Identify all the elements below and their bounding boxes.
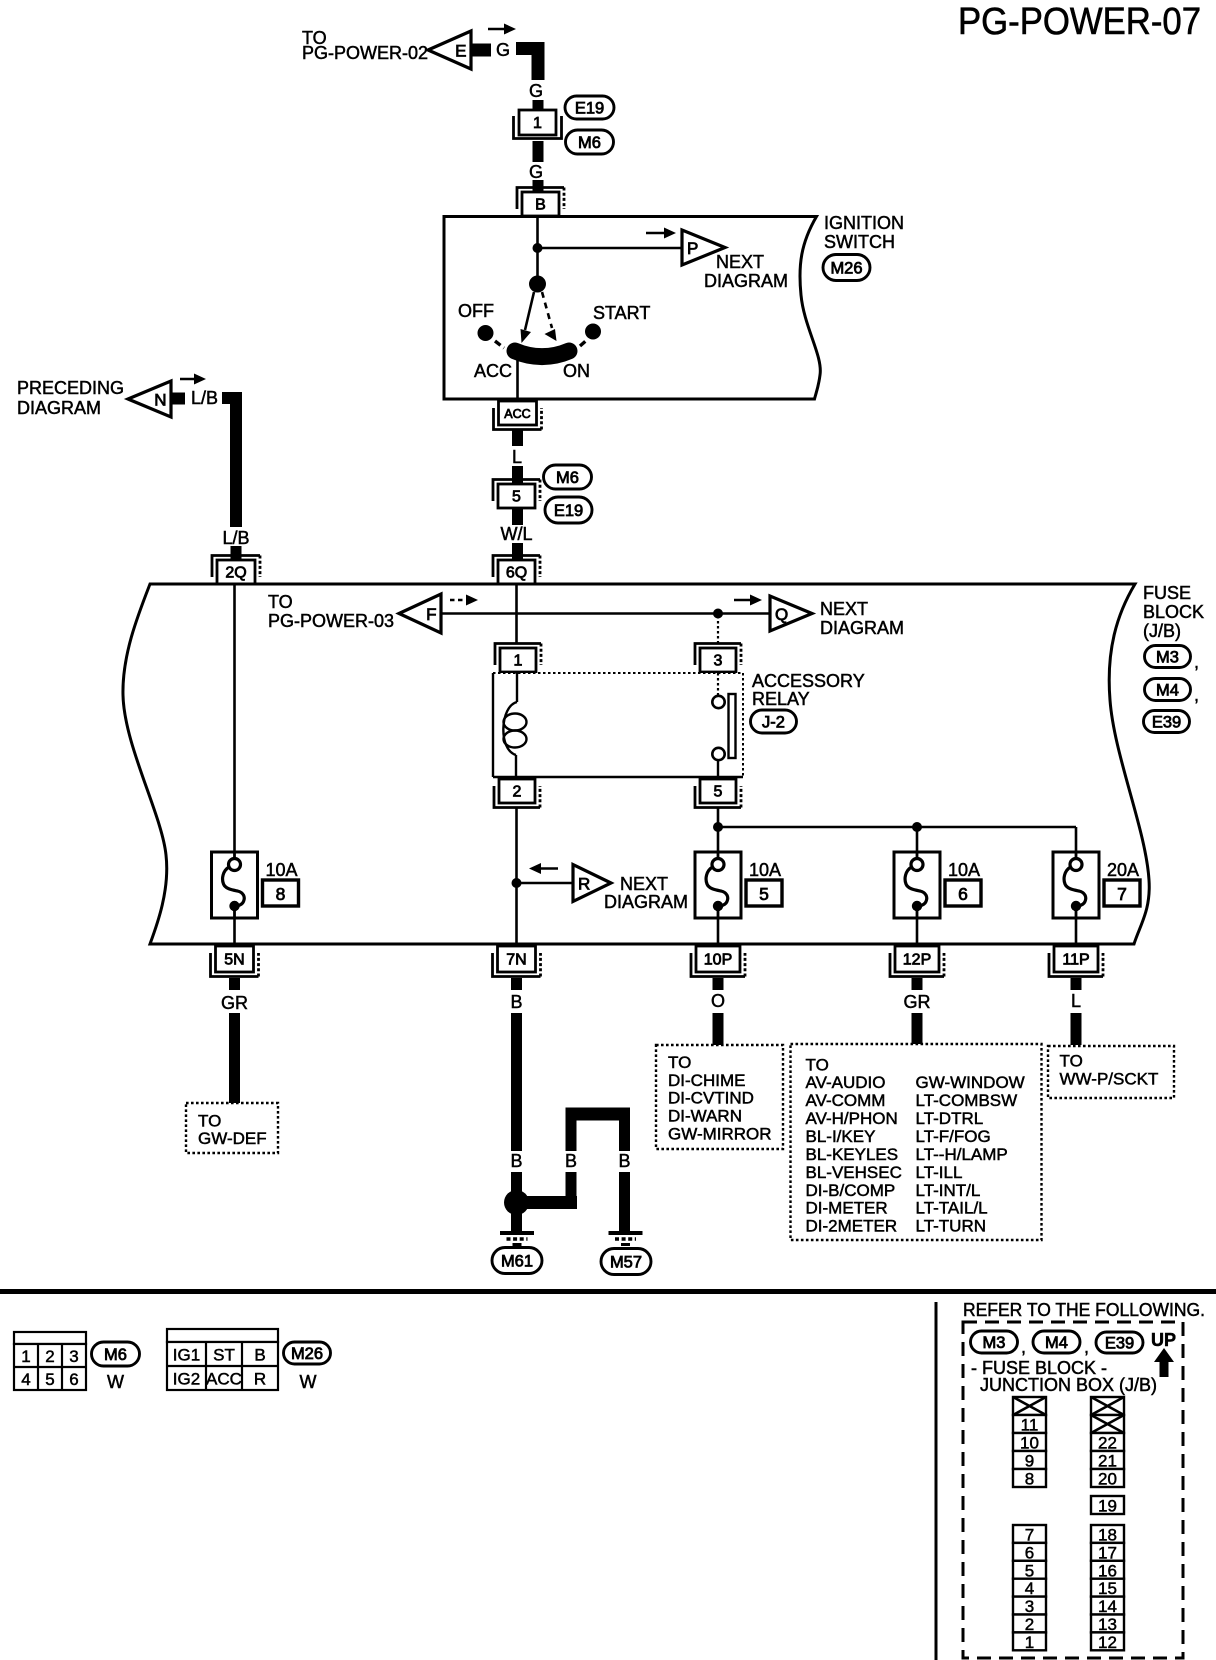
svg-text:E39: E39: [1105, 1335, 1134, 1353]
svg-text:M6: M6: [556, 469, 579, 487]
svg-text:2: 2: [513, 784, 522, 801]
svg-text:GR: GR: [221, 993, 248, 1013]
connector 11P (fuse block): [1049, 946, 1103, 977]
svg-text:PG-POWER-02: PG-POWER-02: [302, 43, 428, 63]
dash OFF to contact arc: [495, 341, 504, 348]
svg-text:W: W: [300, 1372, 317, 1392]
svg-text:(J/B): (J/B): [1143, 621, 1181, 641]
svg-text:GR: GR: [904, 992, 931, 1012]
svg-text:21: 21: [1098, 1452, 1117, 1471]
svg-text:BLOCK: BLOCK: [1143, 602, 1204, 622]
svg-text:JUNCTION BOX (J/B): JUNCTION BOX (J/B): [980, 1375, 1157, 1395]
off-page triangle Q next diagram: [770, 596, 812, 631]
off-page triangle N preceding diagram: [128, 381, 171, 417]
fuse layout right column lower: [1091, 1525, 1124, 1652]
wire stub below 11P: [1071, 978, 1082, 990]
svg-text:E: E: [455, 42, 466, 61]
svg-text:10A: 10A: [749, 860, 781, 880]
connector 1 bracket: [514, 116, 562, 139]
destination box TO WW-P/SCKT: [1048, 1046, 1174, 1098]
svg-text:REFER TO THE FOLLOWING.: REFER TO THE FOLLOWING.: [963, 1300, 1205, 1320]
label PRECEDING DIAGRAM: [17, 378, 124, 418]
svg-text:18: 18: [1098, 1525, 1117, 1544]
left leg lower segment: [566, 1172, 577, 1209]
arrow above triangle F: [450, 595, 478, 606]
horizontal wire F to Q: [441, 612, 770, 615]
horizontal wire to fuses 6 and 7: [718, 826, 1076, 829]
wire fuse 5 to 10P: [717, 918, 720, 946]
svg-text:L/B: L/B: [191, 388, 218, 408]
label IGNITION SWITCH: [824, 213, 904, 252]
wire stub below connector 5: [512, 508, 523, 525]
svg-text:17: 17: [1098, 1543, 1117, 1562]
svg-text:M6: M6: [104, 1346, 127, 1364]
connector label M26: [823, 255, 870, 281]
svg-text:1: 1: [21, 1347, 30, 1366]
wire 2Q to fuse 8: [233, 584, 236, 852]
svg-text:3: 3: [69, 1347, 78, 1366]
svg-text:B: B: [510, 992, 522, 1012]
svg-text:15: 15: [1098, 1579, 1117, 1598]
svg-text:13: 13: [1098, 1615, 1117, 1634]
relay coil: [503, 673, 526, 777]
svg-text:10A: 10A: [266, 860, 298, 880]
fuse layout left column upper: [1013, 1397, 1046, 1489]
wire down to fuse 6: [916, 827, 919, 852]
wire GR to AV/LT boxes: [912, 1013, 923, 1045]
svg-text:9: 9: [1025, 1452, 1034, 1471]
panel label M4: [1033, 1331, 1080, 1353]
wire stub triangle N: [171, 393, 185, 405]
svg-text:E19: E19: [575, 100, 604, 118]
svg-text:5N: 5N: [224, 952, 244, 969]
svg-text:NEXT: NEXT: [620, 874, 668, 894]
connector 12P (fuse block): [890, 946, 944, 977]
svg-text:BL-VEHSEC: BL-VEHSEC: [806, 1163, 902, 1182]
arrow above triangle R: [529, 863, 558, 874]
svg-text:UP: UP: [1151, 1330, 1176, 1350]
svg-text:8: 8: [276, 884, 286, 904]
wire ACC contact to connector ACC: [516, 360, 519, 399]
svg-text:DI-METER: DI-METER: [806, 1199, 888, 1218]
svg-text:7: 7: [1025, 1525, 1034, 1544]
svg-text:B: B: [510, 1151, 522, 1171]
connector label E19: [565, 96, 614, 119]
svg-text:GW-MIRROR: GW-MIRROR: [668, 1124, 772, 1143]
wire stub above connector 5: [512, 466, 523, 484]
wire down to fuse 7: [1075, 827, 1078, 852]
svg-text:22: 22: [1098, 1434, 1117, 1453]
svg-text:PG-POWER-07: PG-POWER-07: [958, 1, 1201, 43]
vertical separator line: [935, 1302, 938, 1660]
svg-text:10P: 10P: [704, 952, 732, 969]
svg-text:F: F: [426, 605, 436, 624]
svg-text:BL-I/KEY: BL-I/KEY: [806, 1127, 876, 1146]
svg-text:LT-TAIL/L: LT-TAIL/L: [916, 1199, 988, 1218]
svg-text:B: B: [618, 1151, 630, 1171]
svg-text:L/B: L/B: [222, 528, 249, 548]
OFF position node: [478, 325, 494, 341]
ignition switch contact arc ACC-ON: [515, 351, 569, 357]
svg-text:11: 11: [1021, 1416, 1039, 1435]
label TO PG-POWER-02: [302, 28, 428, 63]
svg-text:3: 3: [1025, 1597, 1034, 1616]
svg-text:DI-CHIME: DI-CHIME: [668, 1071, 745, 1090]
connector face view M6: [14, 1332, 86, 1390]
svg-text:,: ,: [1084, 1337, 1089, 1357]
junction node in ignition switch: [533, 243, 543, 253]
svg-text:DI-WARN: DI-WARN: [668, 1107, 742, 1126]
svg-text:DIAGRAM: DIAGRAM: [820, 618, 904, 638]
junction node to R: [512, 878, 522, 888]
svg-text:M6: M6: [578, 134, 601, 152]
wire O to DI boxes: [713, 1013, 724, 1047]
destination box TO DI-CHIME etc: [656, 1045, 783, 1149]
fuse 19 cell: [1091, 1496, 1124, 1516]
svg-text:LT-INT/L: LT-INT/L: [916, 1181, 981, 1200]
svg-text:WW-P/SCKT: WW-P/SCKT: [1060, 1070, 1159, 1089]
connector 5N (fuse block): [211, 946, 259, 977]
svg-text:12: 12: [1098, 1633, 1117, 1652]
svg-text:AV-COMM: AV-COMM: [806, 1091, 886, 1110]
M61 ground symbol: [500, 1233, 534, 1245]
svg-text:ACC: ACC: [474, 361, 512, 381]
svg-text:G: G: [529, 162, 543, 182]
dotted wire junction to relay pin 3: [717, 616, 719, 644]
label TO PG-POWER-03: [268, 592, 394, 631]
svg-text:2Q: 2Q: [225, 565, 246, 582]
label FUSE BLOCK (J/B): [1143, 583, 1204, 641]
wire stub into connector 1: [533, 100, 544, 111]
svg-text:6: 6: [69, 1370, 78, 1389]
arrow above triangle E: [488, 24, 516, 35]
svg-text:6: 6: [1025, 1543, 1034, 1562]
wire stub above connector 6Q: [512, 543, 523, 560]
svg-text:N: N: [154, 391, 166, 410]
svg-text:IG2: IG2: [173, 1370, 200, 1389]
fuse 5 10A: [695, 852, 741, 918]
svg-text:NEXT: NEXT: [716, 252, 764, 272]
wire fuse 6 to 12P: [916, 918, 919, 946]
horizontal separator line: [0, 1289, 1216, 1294]
svg-text:E39: E39: [1152, 714, 1181, 732]
svg-text:LT-DTRL: LT-DTRL: [916, 1109, 984, 1128]
svg-text:LT-F/FOG: LT-F/FOG: [916, 1127, 991, 1146]
svg-text:DIAGRAM: DIAGRAM: [604, 892, 688, 912]
svg-text:6Q: 6Q: [506, 565, 527, 582]
connector ACC (ignition switch): [494, 401, 542, 430]
svg-text:10: 10: [1020, 1434, 1039, 1453]
destination box TO AV/BL/DI/GW/LT systems: [791, 1044, 1042, 1240]
svg-text:6: 6: [958, 884, 968, 904]
destination box TO GW-DEF: [186, 1103, 278, 1153]
svg-text:7N: 7N: [506, 952, 526, 969]
accessory relay J-2 body: [493, 673, 743, 777]
svg-text:,: ,: [1021, 1337, 1026, 1357]
svg-text:DIAGRAM: DIAGRAM: [17, 398, 101, 418]
connector 10P (fuse block): [691, 946, 745, 977]
thick wire junction to right branch: [520, 1196, 577, 1209]
svg-text:LT-ILL: LT-ILL: [916, 1163, 963, 1182]
connector label M6 (2): [544, 465, 592, 489]
svg-text:G: G: [496, 40, 510, 60]
svg-text:ACC: ACC: [206, 1370, 242, 1389]
svg-text:AV-AUDIO: AV-AUDIO: [806, 1073, 886, 1092]
ground label M61: [492, 1248, 542, 1274]
arrow above triangle Q: [734, 595, 762, 606]
fuse number box 5: [746, 880, 782, 906]
off-page triangle F to PG-POWER-03: [399, 594, 441, 633]
wire junction to M61 ground: [511, 1212, 522, 1231]
solid arrow rotor to ACC: [521, 292, 535, 343]
wire from B to junction: [536, 216, 539, 248]
svg-text:DI-2METER: DI-2METER: [806, 1217, 898, 1236]
wire stub triangle E: [471, 44, 491, 57]
svg-text:2: 2: [1025, 1615, 1034, 1634]
dash contact arc to START: [580, 339, 588, 346]
svg-text:G: G: [529, 81, 543, 101]
relay pin 2: [494, 779, 540, 808]
wire stub below 5N: [229, 978, 240, 990]
svg-text:E19: E19: [554, 502, 583, 520]
svg-text:TO: TO: [1060, 1052, 1083, 1071]
junction node to Q: [713, 609, 723, 619]
off-page triangle P next diagram: [682, 230, 725, 265]
fuse number box 6: [945, 880, 981, 906]
svg-text:L: L: [1071, 991, 1081, 1011]
ground label M57: [601, 1249, 651, 1275]
svg-text:DI-CVTIND: DI-CVTIND: [668, 1089, 754, 1108]
svg-text:5: 5: [1025, 1561, 1034, 1580]
svg-text:M3: M3: [983, 1334, 1006, 1352]
svg-text:TO: TO: [198, 1112, 221, 1131]
wire relay pin 5 down: [717, 808, 720, 852]
relay pin 1: [495, 644, 541, 673]
svg-text:16: 16: [1098, 1561, 1117, 1580]
svg-text:DI-B/COMP: DI-B/COMP: [806, 1181, 896, 1200]
svg-text:START: START: [593, 303, 650, 323]
wire 6Q down to relay pin 1: [515, 584, 518, 644]
svg-text:1: 1: [1025, 1633, 1034, 1652]
wire fuse 8 to 5N: [233, 918, 236, 946]
svg-text:5: 5: [512, 489, 521, 506]
svg-text:7: 7: [1117, 884, 1127, 904]
svg-text:R: R: [578, 875, 590, 894]
svg-text:DIAGRAM: DIAGRAM: [704, 271, 788, 291]
connector B (ignition switch): [517, 188, 564, 217]
svg-text:P: P: [687, 239, 698, 258]
off-page triangle E to PG-POWER-02: [428, 31, 471, 69]
connector 2Q (fuse block): [212, 556, 260, 585]
label ACCESSORY RELAY: [752, 671, 865, 709]
panel label E39: [1096, 1332, 1143, 1353]
svg-text:B: B: [535, 197, 546, 214]
fuse number box 7: [1104, 880, 1140, 906]
relay pin 5: [695, 779, 741, 808]
connector 7N (fuse block): [493, 946, 541, 977]
svg-text:M3: M3: [1156, 649, 1179, 667]
label NEXT DIAGRAM (Q): [820, 599, 904, 638]
svg-text:M4: M4: [1045, 1334, 1068, 1352]
wire to triangle P: [538, 247, 684, 250]
svg-text:1: 1: [514, 653, 523, 670]
panel label M3: [971, 1331, 1018, 1353]
wire GR to GW-DEF: [229, 1013, 240, 1104]
svg-text:PRECEDING: PRECEDING: [17, 378, 124, 398]
M57 ground symbol: [609, 1233, 643, 1245]
svg-text:,: ,: [1194, 652, 1199, 672]
fuse number box 8: [263, 880, 299, 906]
svg-text:20: 20: [1098, 1470, 1117, 1489]
svg-text:W: W: [107, 1372, 124, 1392]
wire stub below connector 1: [533, 141, 544, 162]
left leg upper segment: [566, 1114, 577, 1151]
svg-text:FUSE: FUSE: [1143, 583, 1191, 603]
svg-text:LT-TURN: LT-TURN: [916, 1217, 987, 1236]
wire stub into connector B: [533, 180, 544, 192]
right leg upper segment: [619, 1114, 630, 1151]
svg-text:TO: TO: [668, 1053, 691, 1072]
fuse layout right column upper: [1091, 1397, 1124, 1489]
svg-text:OFF: OFF: [458, 301, 494, 321]
connector face view M26: [167, 1329, 278, 1390]
svg-text:Q: Q: [775, 605, 788, 624]
svg-text:LT--H/LAMP: LT--H/LAMP: [916, 1145, 1008, 1164]
dashed panel box: [963, 1322, 1183, 1658]
svg-text:L: L: [512, 447, 522, 467]
fuse 6 10A: [894, 852, 940, 918]
wire stub above connector 2Q: [231, 546, 242, 560]
wire L to WW-P/SCKT: [1071, 1013, 1082, 1045]
svg-text:M61: M61: [501, 1253, 533, 1271]
svg-text:PG-POWER-03: PG-POWER-03: [268, 611, 394, 631]
arrow above triangle N: [180, 374, 206, 385]
svg-text:J-2: J-2: [762, 714, 785, 732]
wire stub below 7N: [511, 978, 522, 990]
svg-text:TO: TO: [268, 592, 293, 612]
connector face label M6: [92, 1342, 140, 1366]
connector label M4: [1145, 679, 1191, 701]
connector 1 (E19/M6 inline): [519, 110, 556, 135]
connector label E19 (2): [545, 497, 592, 523]
thick wire L/B corner: [222, 398, 236, 527]
svg-text:ACC: ACC: [504, 407, 530, 421]
svg-text:12P: 12P: [903, 952, 931, 969]
connector 5 (M6/E19 inline): [493, 480, 540, 509]
svg-text:14: 14: [1098, 1597, 1117, 1616]
svg-text:GW-WINDOW: GW-WINDOW: [916, 1073, 1025, 1092]
svg-text:TO: TO: [806, 1055, 829, 1074]
wire relay pin 2 to 7N: [515, 808, 518, 946]
ignition rotor node: [529, 276, 546, 293]
svg-text:1: 1: [533, 115, 542, 132]
top bar of ground loop wire: [566, 1108, 631, 1121]
junction node fuse 6: [912, 822, 922, 832]
label NEXT DIAGRAM (P): [704, 252, 788, 291]
svg-text:B: B: [565, 1151, 577, 1171]
svg-text:SWITCH: SWITCH: [824, 232, 895, 252]
svg-text:M26: M26: [291, 1345, 323, 1363]
label NEXT DIAGRAM (R): [604, 874, 688, 912]
svg-text:4: 4: [1025, 1579, 1034, 1598]
off-page triangle R next diagram: [573, 865, 611, 902]
svg-text:W/L: W/L: [500, 524, 532, 544]
fuse block (J/B) component box: [123, 584, 1149, 944]
svg-text:M4: M4: [1156, 682, 1179, 700]
wire stub below 12P: [912, 978, 923, 990]
svg-text:5: 5: [714, 784, 723, 801]
svg-text:19: 19: [1098, 1497, 1117, 1516]
fuse 7 20A: [1053, 852, 1099, 918]
svg-text:O: O: [711, 991, 725, 1011]
arrow above triangle P: [646, 228, 676, 239]
svg-text:20A: 20A: [1107, 860, 1139, 880]
wire junction to triangle R: [517, 882, 575, 885]
connector label M6: [566, 130, 614, 154]
svg-text:IG1: IG1: [173, 1346, 200, 1365]
svg-text:ACCESSORY: ACCESSORY: [752, 671, 865, 691]
svg-text:R: R: [254, 1370, 266, 1389]
svg-text:NEXT: NEXT: [820, 599, 868, 619]
connector label J-2: [751, 710, 797, 733]
svg-text:LT-COMBSW: LT-COMBSW: [916, 1091, 1018, 1110]
junction node pin 5 branch: [713, 822, 723, 832]
fuse 8 10A: [212, 852, 258, 918]
svg-text:5: 5: [45, 1370, 54, 1389]
svg-text:BL-KEYLES: BL-KEYLES: [806, 1145, 899, 1164]
svg-text:M57: M57: [610, 1254, 642, 1272]
svg-text:8: 8: [1025, 1470, 1034, 1489]
svg-text:GW-DEF: GW-DEF: [198, 1129, 267, 1148]
svg-text:M26: M26: [830, 260, 862, 278]
relay switch contact: [712, 673, 735, 777]
thick wire G horizontal corner: [516, 49, 538, 81]
svg-text:RELAY: RELAY: [752, 689, 810, 709]
svg-text:11P: 11P: [1062, 952, 1089, 969]
START position node: [585, 324, 601, 340]
right leg lower segment: [619, 1172, 630, 1231]
connector label E39: [1144, 711, 1190, 733]
svg-text:ON: ON: [563, 361, 590, 381]
svg-text:,: ,: [1194, 685, 1199, 705]
fuse layout left column lower: [1013, 1525, 1046, 1652]
svg-text:B: B: [254, 1346, 265, 1365]
wire stub below 10P: [713, 978, 724, 990]
svg-text:3: 3: [714, 653, 723, 670]
connector face label M26: [284, 1342, 331, 1364]
svg-text:ST: ST: [213, 1346, 235, 1365]
connector label M3: [1145, 646, 1191, 668]
ground junction node: [504, 1190, 529, 1215]
connector 6Q (fuse block): [493, 556, 540, 585]
wire fuse 7 to 11P: [1075, 918, 1078, 946]
wire stub to ground junction: [511, 1172, 522, 1192]
dashed arrow rotor to ON: [542, 292, 557, 341]
svg-text:IGNITION: IGNITION: [824, 213, 904, 233]
ignition switch component box: [444, 217, 820, 400]
svg-text:5: 5: [759, 884, 769, 904]
wire B from 7N down: [511, 1013, 522, 1151]
wire junction to rotor: [536, 248, 539, 284]
wire stub below ACC: [512, 430, 523, 446]
up arrow icon: [1154, 1348, 1174, 1377]
svg-text:2: 2: [45, 1347, 54, 1366]
svg-text:10A: 10A: [948, 860, 980, 880]
svg-text:4: 4: [21, 1370, 30, 1389]
svg-text:AV-H/PHON: AV-H/PHON: [806, 1109, 898, 1128]
relay pin 3: [695, 644, 741, 673]
